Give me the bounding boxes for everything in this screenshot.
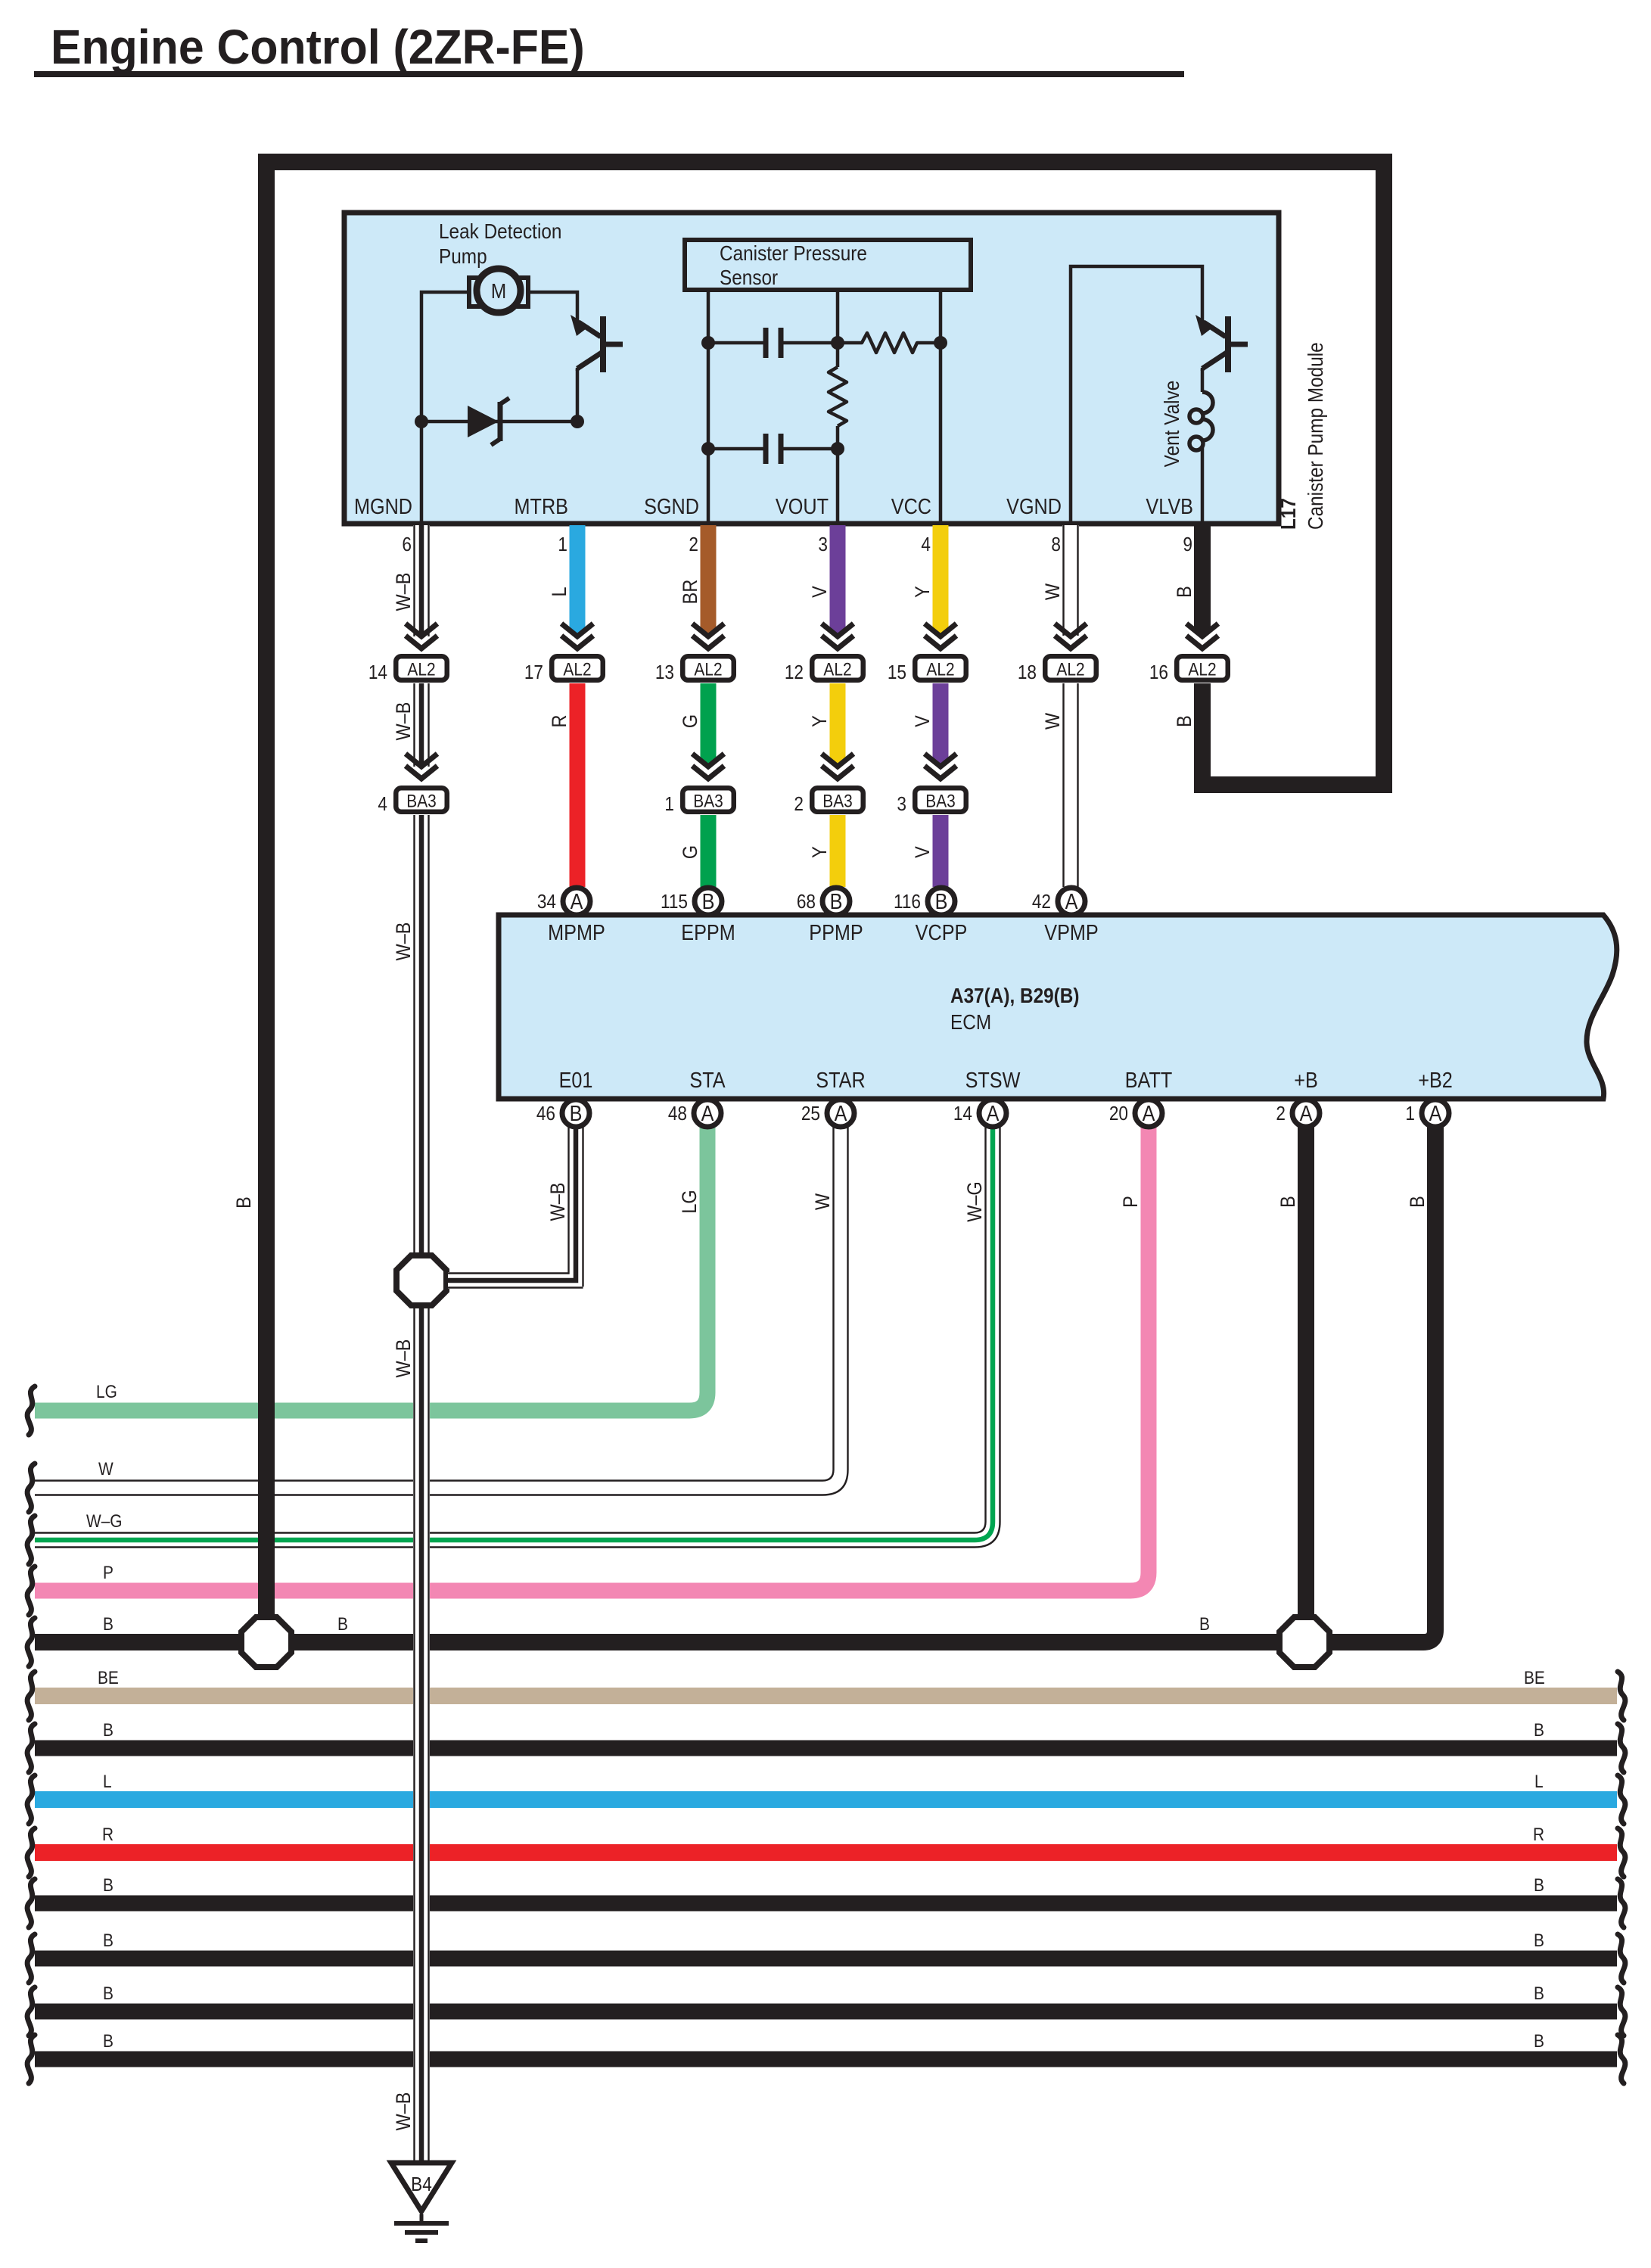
- svg-text:VCPP: VCPP: [916, 919, 968, 944]
- svg-text:STSW: STSW: [965, 1067, 1021, 1092]
- svg-text:A: A: [701, 1100, 715, 1125]
- svg-text:B: B: [830, 888, 843, 913]
- svg-text:A: A: [1065, 888, 1079, 913]
- svg-text:VPMP: VPMP: [1044, 919, 1098, 944]
- svg-text:AL2: AL2: [823, 659, 851, 680]
- svg-text:B: B: [1199, 1614, 1210, 1635]
- svg-text:17: 17: [524, 662, 543, 684]
- svg-text:+B: +B: [1294, 1067, 1318, 1092]
- svg-text:68: 68: [797, 891, 816, 913]
- svg-text:2: 2: [1276, 1103, 1286, 1125]
- svg-text:Canister Pump Module: Canister Pump Module: [1303, 342, 1327, 530]
- svg-text:4: 4: [378, 794, 387, 816]
- svg-text:AL2: AL2: [563, 659, 591, 680]
- svg-text:BA3: BA3: [406, 791, 436, 811]
- svg-text:E01: E01: [559, 1067, 593, 1092]
- svg-text:V: V: [912, 715, 934, 727]
- svg-text:A: A: [835, 1100, 848, 1125]
- svg-text:1: 1: [558, 534, 567, 556]
- svg-text:P: P: [1120, 1196, 1143, 1208]
- svg-text:BATT: BATT: [1125, 1067, 1173, 1092]
- svg-text:48: 48: [668, 1103, 687, 1125]
- svg-text:1: 1: [1405, 1103, 1415, 1125]
- svg-text:W–B: W–B: [393, 1339, 415, 1378]
- svg-text:BA3: BA3: [822, 791, 852, 811]
- svg-text:Pump: Pump: [439, 244, 487, 268]
- svg-text:R: R: [102, 1825, 113, 1845]
- svg-text:R: R: [1533, 1825, 1544, 1845]
- svg-text:W–G: W–G: [964, 1181, 987, 1221]
- svg-text:A: A: [1143, 1100, 1156, 1125]
- svg-text:STAR: STAR: [816, 1067, 865, 1092]
- svg-text:W–B: W–B: [393, 2092, 415, 2131]
- svg-text:BE: BE: [98, 1668, 119, 1688]
- svg-text:B: B: [1174, 586, 1196, 598]
- svg-text:B: B: [1277, 1196, 1300, 1208]
- svg-text:Sensor: Sensor: [720, 265, 778, 289]
- svg-text:25: 25: [801, 1103, 820, 1125]
- svg-text:A: A: [1300, 1100, 1314, 1125]
- svg-text:B: B: [1174, 715, 1196, 727]
- svg-text:34: 34: [537, 891, 556, 913]
- svg-text:+B2: +B2: [1418, 1067, 1453, 1092]
- svg-text:3: 3: [897, 794, 906, 816]
- svg-text:B: B: [1534, 1875, 1544, 1896]
- svg-text:B: B: [935, 888, 948, 913]
- svg-text:B: B: [103, 1875, 113, 1896]
- svg-text:W: W: [1042, 713, 1065, 730]
- svg-text:A37(A), B29(B): A37(A), B29(B): [950, 983, 1079, 1007]
- svg-text:M: M: [491, 278, 506, 303]
- svg-text:B: B: [103, 2031, 113, 2052]
- svg-text:3: 3: [818, 534, 828, 556]
- svg-text:B: B: [570, 1100, 583, 1125]
- svg-text:BA3: BA3: [925, 791, 955, 811]
- svg-text:VCC: VCC: [891, 493, 931, 518]
- svg-text:13: 13: [655, 662, 674, 684]
- svg-text:20: 20: [1109, 1103, 1128, 1125]
- svg-text:6: 6: [402, 534, 412, 556]
- svg-text:15: 15: [888, 662, 906, 684]
- svg-text:L: L: [1534, 1772, 1544, 1792]
- svg-text:B: B: [103, 1614, 113, 1635]
- svg-text:W: W: [812, 1193, 835, 1210]
- svg-text:2: 2: [794, 794, 804, 816]
- svg-text:A: A: [987, 1100, 1000, 1125]
- svg-text:Engine Control (2ZR-FE): Engine Control (2ZR-FE): [51, 20, 585, 75]
- svg-text:L: L: [549, 586, 571, 596]
- svg-text:Y: Y: [809, 715, 832, 727]
- svg-text:B: B: [1407, 1196, 1429, 1208]
- svg-text:V: V: [912, 846, 934, 858]
- svg-text:MGND: MGND: [354, 493, 412, 518]
- svg-text:PPMP: PPMP: [809, 919, 863, 944]
- svg-text:18: 18: [1018, 662, 1037, 684]
- svg-text:115: 115: [661, 891, 688, 913]
- svg-text:Leak Detection: Leak Detection: [439, 219, 561, 243]
- svg-text:LG: LG: [679, 1190, 701, 1213]
- svg-text:AL2: AL2: [926, 659, 954, 680]
- svg-text:A: A: [571, 888, 584, 913]
- svg-text:Y: Y: [912, 586, 934, 598]
- svg-text:B: B: [1534, 2031, 1544, 2052]
- svg-text:BE: BE: [1524, 1668, 1545, 1688]
- svg-text:W–B: W–B: [393, 573, 415, 611]
- svg-text:B: B: [233, 1196, 256, 1209]
- svg-text:B: B: [1534, 1720, 1544, 1741]
- svg-text:B: B: [1534, 1983, 1544, 2004]
- svg-text:BA3: BA3: [693, 791, 723, 811]
- svg-text:B: B: [702, 888, 715, 913]
- svg-text:L: L: [103, 1772, 112, 1792]
- svg-text:W: W: [98, 1459, 113, 1479]
- svg-text:Vent Valve: Vent Valve: [1159, 381, 1183, 468]
- svg-text:116: 116: [894, 891, 921, 913]
- svg-text:8: 8: [1051, 534, 1061, 556]
- svg-text:W–B: W–B: [547, 1183, 570, 1221]
- svg-text:W–B: W–B: [393, 922, 415, 961]
- svg-text:W–B: W–B: [393, 702, 415, 741]
- svg-text:VLVB: VLVB: [1146, 493, 1193, 518]
- svg-text:G: G: [679, 845, 702, 859]
- svg-text:4: 4: [921, 534, 931, 556]
- svg-text:12: 12: [785, 662, 804, 684]
- svg-text:16: 16: [1149, 662, 1168, 684]
- svg-text:MTRB: MTRB: [515, 493, 568, 518]
- svg-text:14: 14: [368, 662, 387, 684]
- svg-text:1: 1: [664, 794, 674, 816]
- svg-text:SGND: SGND: [644, 493, 699, 518]
- svg-text:B: B: [103, 1983, 113, 2004]
- svg-text:B4: B4: [411, 2174, 432, 2196]
- svg-text:W–G: W–G: [86, 1511, 123, 1532]
- svg-text:MPMP: MPMP: [548, 919, 605, 944]
- svg-text:VOUT: VOUT: [776, 493, 829, 518]
- svg-text:14: 14: [953, 1103, 972, 1125]
- svg-text:B: B: [103, 1720, 113, 1741]
- svg-text:B: B: [1534, 1930, 1544, 1951]
- svg-text:STA: STA: [689, 1067, 726, 1092]
- svg-text:Y: Y: [809, 846, 832, 858]
- svg-text:2: 2: [689, 534, 698, 556]
- svg-text:R: R: [549, 715, 571, 728]
- svg-text:46: 46: [536, 1103, 555, 1125]
- svg-text:BR: BR: [679, 580, 702, 605]
- svg-text:9: 9: [1183, 534, 1192, 556]
- svg-text:G: G: [679, 714, 702, 728]
- svg-text:42: 42: [1032, 891, 1051, 913]
- svg-text:B: B: [103, 1930, 113, 1951]
- svg-text:P: P: [103, 1563, 113, 1583]
- svg-text:Canister Pressure: Canister Pressure: [720, 241, 867, 265]
- svg-text:AL2: AL2: [407, 659, 435, 680]
- svg-text:EPPM: EPPM: [681, 919, 735, 944]
- svg-text:AL2: AL2: [1056, 659, 1084, 680]
- svg-text:ECM: ECM: [950, 1010, 991, 1034]
- svg-text:AL2: AL2: [1188, 659, 1216, 680]
- svg-text:VGND: VGND: [1006, 493, 1062, 518]
- svg-text:LG: LG: [96, 1382, 117, 1402]
- svg-text:L17: L17: [1276, 498, 1300, 530]
- svg-text:A: A: [1429, 1100, 1443, 1125]
- svg-text:V: V: [809, 586, 832, 598]
- svg-text:AL2: AL2: [694, 659, 722, 680]
- svg-text:B: B: [337, 1614, 348, 1635]
- svg-text:W: W: [1042, 583, 1065, 600]
